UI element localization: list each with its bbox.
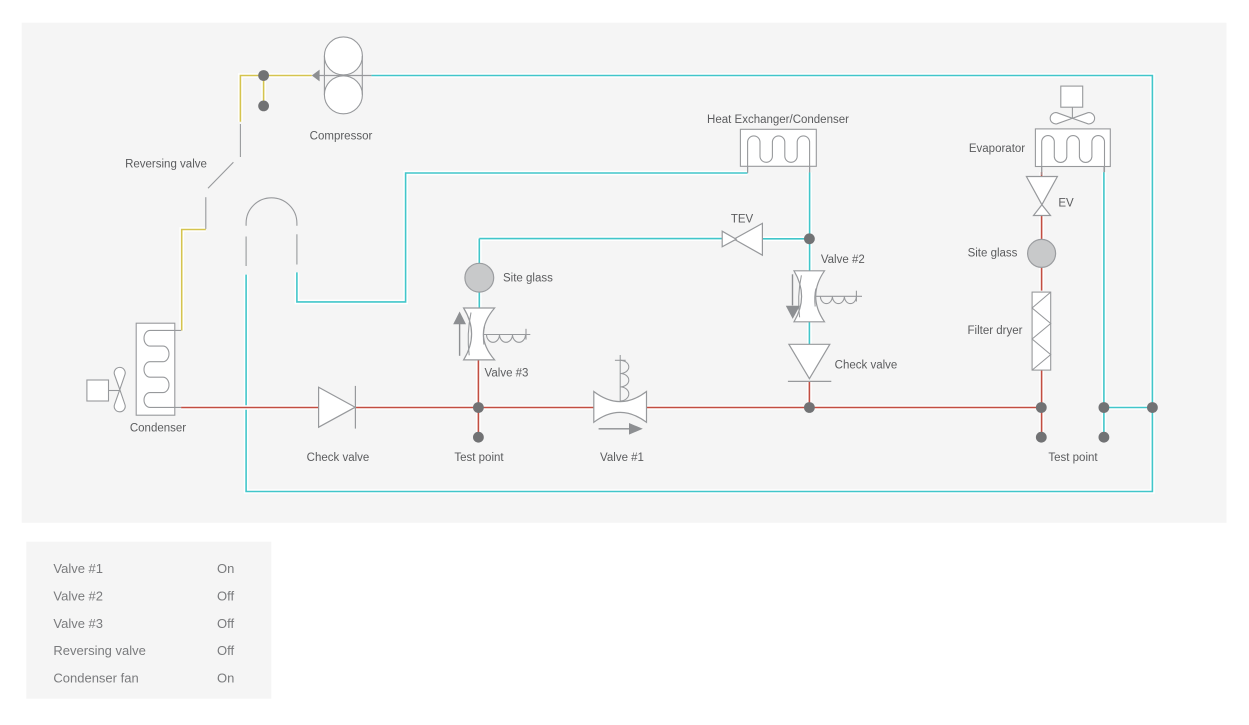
svg-text:EV: EV bbox=[1058, 198, 1074, 210]
svg-text:Condenser: Condenser bbox=[130, 423, 186, 435]
svg-text:Reversing valve: Reversing valve bbox=[125, 159, 207, 171]
svg-text:Valve #2: Valve #2 bbox=[53, 588, 103, 603]
svg-text:Check valve: Check valve bbox=[307, 452, 370, 464]
svg-text:TEV: TEV bbox=[731, 214, 754, 226]
svg-text:Valve #3: Valve #3 bbox=[53, 616, 103, 631]
svg-text:On: On bbox=[217, 561, 234, 576]
svg-text:Off: Off bbox=[217, 643, 234, 658]
svg-text:Off: Off bbox=[217, 588, 234, 603]
svg-text:Reversing valve: Reversing valve bbox=[53, 643, 145, 658]
svg-text:Site glass: Site glass bbox=[968, 248, 1018, 260]
svg-text:Site glass: Site glass bbox=[503, 273, 553, 285]
svg-text:Valve #1: Valve #1 bbox=[53, 561, 103, 576]
svg-text:Off: Off bbox=[217, 616, 234, 631]
svg-text:Compressor: Compressor bbox=[310, 131, 373, 143]
svg-text:Valve #1: Valve #1 bbox=[600, 452, 644, 464]
svg-text:Evaporator: Evaporator bbox=[969, 143, 1025, 155]
svg-text:Valve #3: Valve #3 bbox=[485, 368, 529, 380]
svg-text:Check valve: Check valve bbox=[835, 360, 898, 372]
svg-text:Test point: Test point bbox=[1048, 452, 1098, 464]
svg-text:Test point: Test point bbox=[454, 452, 504, 464]
svg-text:Condenser fan: Condenser fan bbox=[53, 671, 138, 686]
svg-text:Filter dryer: Filter dryer bbox=[968, 325, 1023, 337]
svg-text:On: On bbox=[217, 671, 234, 686]
svg-text:Heat Exchanger/Condenser: Heat Exchanger/Condenser bbox=[707, 114, 849, 126]
svg-text:Valve #2: Valve #2 bbox=[821, 254, 865, 266]
